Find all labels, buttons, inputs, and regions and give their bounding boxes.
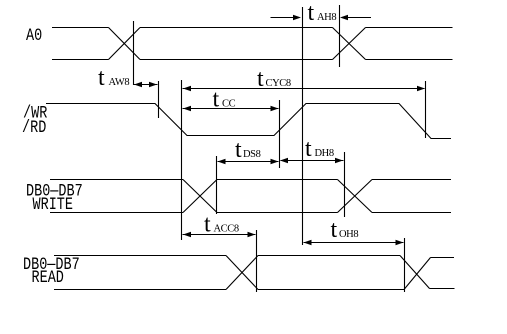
tACC8 right arrowhead xyxy=(248,232,256,238)
DB WRITE crossover 1 xyxy=(183,180,217,213)
svg-text:t: t xyxy=(331,217,338,243)
tAH8 left arrowhead xyxy=(293,15,301,21)
reference line at DB write valid (x=216) xyxy=(216,156,218,214)
DB READ crossover 2 xyxy=(400,256,431,290)
A0 crossover 2 xyxy=(333,28,366,60)
svg-text:t: t xyxy=(308,0,315,26)
svg-text:t: t xyxy=(213,87,220,113)
svg-text:t: t xyxy=(98,65,105,91)
tOH8 left arrowhead xyxy=(304,240,312,246)
tCYC8 arrow shaft xyxy=(183,88,425,90)
svg-text:A0: A0 xyxy=(26,25,42,45)
svg-text:t: t xyxy=(257,66,264,92)
tDH8 left arrowhead xyxy=(280,158,288,164)
svg-text:READ: READ xyxy=(32,267,64,287)
tAH8 left arrow shaft xyxy=(271,17,296,19)
tACC8 left arrowhead xyxy=(183,232,191,238)
tAH8 right arrow shaft xyxy=(346,17,371,19)
tDH8 arrow shaft xyxy=(281,160,344,162)
svg-text:ACC8: ACC8 xyxy=(214,224,239,235)
reference line at /WR rise (x=302) xyxy=(302,7,304,245)
tACC8 arrow shaft xyxy=(183,234,256,236)
svg-text:CYC8: CYC8 xyxy=(266,78,291,89)
tDS8 left arrowhead xyxy=(218,159,226,165)
reference line at /WR low (x=182) xyxy=(181,80,183,240)
reference line t_OH8 end (x=404) xyxy=(404,238,406,292)
tDS8 arrow shaft xyxy=(218,161,279,163)
svg-text:AH8: AH8 xyxy=(317,12,336,23)
label DB0-DB7 (write) xyxy=(26,181,83,201)
signal /WR /RD waveform xyxy=(46,104,451,139)
tAH8 right arrowhead xyxy=(340,15,348,21)
label READ xyxy=(32,267,64,287)
tOH8 right arrowhead xyxy=(396,240,404,246)
tCC left arrowhead xyxy=(183,106,191,112)
tOH8 arrow shaft xyxy=(304,242,404,244)
reference line t_CC end (x=279) xyxy=(279,100,281,168)
label DB0-DB7 (read) xyxy=(23,254,80,274)
svg-text:t: t xyxy=(204,212,211,238)
svg-text:OH8: OH8 xyxy=(339,229,358,240)
tAW8 right arrowhead xyxy=(149,82,157,88)
DB READ valid region rails xyxy=(258,256,404,290)
tAW8 left arrowhead xyxy=(134,82,142,88)
signal DB0-DB7 WRITE bottom rail xyxy=(50,212,451,214)
tAW8 arrow shaft xyxy=(134,84,158,86)
svg-text:WRITE: WRITE xyxy=(33,194,73,214)
tCYC8 right arrowhead xyxy=(417,86,425,92)
label A0 xyxy=(26,25,42,45)
svg-text:/RD: /RD xyxy=(22,117,46,137)
reference line at A0 change (x=133) xyxy=(133,21,135,85)
signal A0 bus bottom rail xyxy=(52,59,453,61)
label /RD xyxy=(22,117,46,137)
svg-text:DH8: DH8 xyxy=(315,148,334,159)
tCYC8 left arrowhead xyxy=(183,86,191,92)
signal DB0-DB7 WRITE top rail xyxy=(50,179,451,181)
reference line t_DH8 end (x=344) xyxy=(344,152,346,217)
label WRITE xyxy=(33,194,73,214)
reference line at A0 hold (x=339) xyxy=(339,5,341,67)
A0 crossover 1 xyxy=(109,28,141,60)
svg-text:t: t xyxy=(235,137,242,163)
tCC arrow shaft xyxy=(183,108,279,110)
signal DB0-DB7 READ left rails xyxy=(54,256,226,290)
tDS8 right arrowhead xyxy=(271,159,279,165)
reference line at read data valid (x=256) xyxy=(256,230,258,292)
svg-text:t: t xyxy=(305,136,312,162)
svg-text:AW8: AW8 xyxy=(109,77,130,88)
tCC right arrowhead xyxy=(271,106,279,112)
reference line cycle end (x=426) xyxy=(425,81,427,138)
signal A0 bus top rail xyxy=(52,27,453,29)
DB READ right rails xyxy=(430,258,455,289)
svg-text:DS8: DS8 xyxy=(243,149,261,160)
DB READ crossover 1 xyxy=(226,256,258,290)
DB WRITE crossover 2 xyxy=(338,180,373,213)
svg-text:CC: CC xyxy=(222,99,236,110)
label /WR xyxy=(23,103,48,123)
tDH8 right arrowhead xyxy=(335,158,343,164)
reference line at /WR fall start (x=158) xyxy=(158,81,160,118)
